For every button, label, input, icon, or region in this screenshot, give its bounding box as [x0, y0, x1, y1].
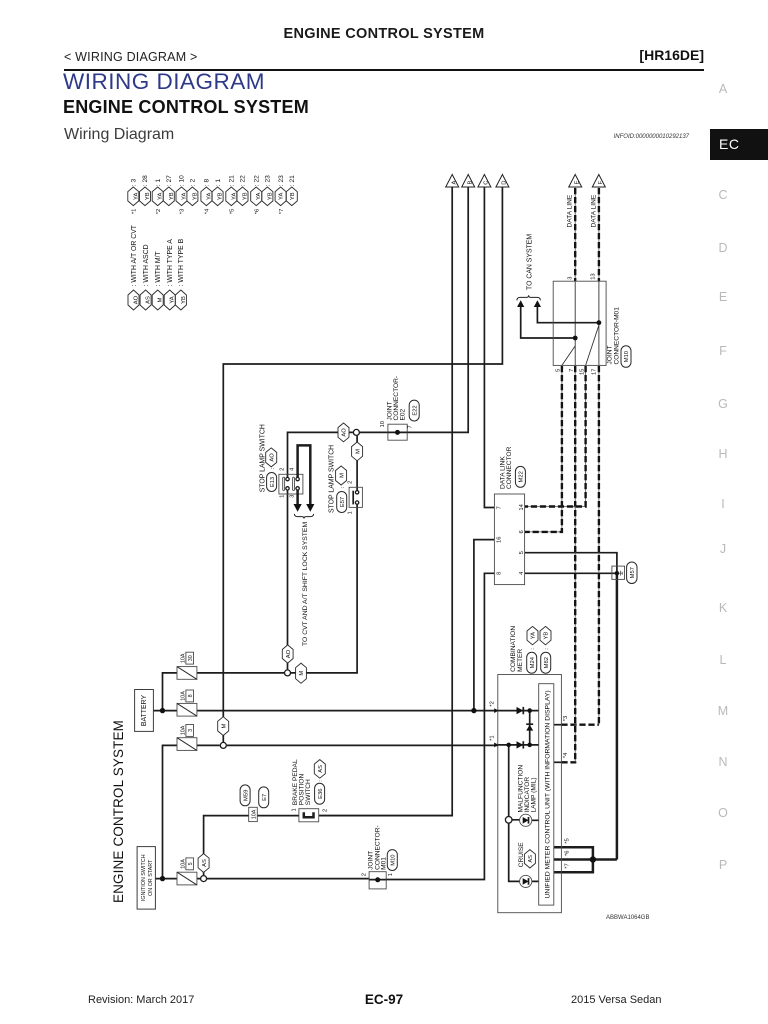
wire meter *4 row: [554, 761, 562, 763]
svg-text:TO CAN SYSTEM: TO CAN SYSTEM: [527, 234, 534, 290]
svg-text:E: E: [574, 181, 580, 185]
wire data link pin8 down-left to joint connector M10 pin1: [386, 573, 494, 879]
wire ignition feed rail to fuse3: [163, 745, 178, 878]
svg-text:AO: AO: [269, 453, 275, 462]
joint connector M01 internal bus 13-17: [586, 281, 599, 365]
svg-text:*2: *2: [490, 701, 496, 706]
wire B vertical from triangle B to joint connector E22: [407, 187, 468, 432]
svg-text:*3: *3: [180, 209, 186, 214]
svg-text:YA: YA: [256, 193, 262, 200]
svg-text:YB: YB: [243, 192, 249, 200]
svg-text:8: 8: [496, 572, 502, 575]
svg-text:10A: 10A: [180, 691, 186, 701]
svg-text:: 1: : 1: [155, 179, 162, 187]
svg-text:17: 17: [592, 369, 598, 375]
svg-text:: 27: : 27: [166, 175, 173, 186]
svg-text:ON OR START: ON OR START: [148, 859, 154, 896]
option tag *5 YA:21 YB:22: [226, 175, 249, 214]
splice circle on E22 wire: [353, 429, 359, 435]
svg-text:: 23: : 23: [265, 175, 272, 186]
svg-text:2: 2: [362, 873, 368, 876]
diode D1 on *2 row: [517, 707, 524, 714]
svg-text:AS: AS: [146, 296, 152, 304]
svg-text:E36: E36: [318, 789, 324, 799]
svg-text::: :: [530, 648, 536, 650]
svg-text:5: 5: [555, 369, 561, 372]
wire fuse8 feed to combination meter *2: [197, 710, 498, 712]
svg-text::: :: [544, 648, 550, 650]
wire ignition switch row to joint connector M10 pin2: [155, 878, 369, 880]
code tag AO on E13 pin1 wire: [282, 645, 293, 663]
svg-text:M10: M10: [391, 854, 397, 865]
wire battery feed: [153, 673, 177, 711]
svg-text:YA: YA: [206, 193, 212, 200]
svg-text:DATA LINE: DATA LINE: [566, 194, 573, 227]
option tag *4 YA:8 YB:1: [201, 179, 224, 215]
option tag *3 YA:10 YB:2: [176, 175, 198, 214]
svg-text:7: 7: [408, 425, 414, 428]
legend code YB WITH TYPE B: [175, 238, 187, 310]
svg-text:*5: *5: [230, 209, 236, 214]
svg-text:M24: M24: [530, 656, 536, 668]
wire brake pedal branch: [204, 816, 299, 876]
svg-text:M: M: [299, 671, 305, 676]
joint connector M10 lower: [362, 825, 398, 889]
svg-text:10A: 10A: [180, 725, 186, 735]
wire to CAN system right arrow: [537, 306, 599, 323]
CRUISE indicator lamp: [518, 842, 536, 888]
svg-text:M10: M10: [624, 351, 630, 362]
wire A vertical from triangle A to brake switch row: [319, 187, 453, 816]
dashed wire M01 pin17 to meter *3: [598, 365, 600, 724]
wire diode-OR link: [529, 711, 531, 745]
junction dot MIL branch: [506, 743, 511, 748]
svg-text:M: M: [221, 724, 227, 729]
svg-text:10A: 10A: [180, 653, 186, 663]
stop lamp switch E13: [259, 424, 303, 498]
wire D vertical from triangle D down-left to meter *1 splice: [223, 187, 502, 742]
arrowhead CAN left: [517, 300, 524, 307]
svg-text:YB: YB: [218, 192, 224, 200]
junction dot M01 bus 3: [573, 336, 578, 341]
svg-text:YB: YB: [290, 192, 296, 200]
node F triangle: [592, 175, 605, 188]
svg-text:7: 7: [496, 506, 502, 509]
svg-text:3: 3: [567, 277, 573, 280]
svg-text:ENGINE CONTROL SYSTEM: ENGINE CONTROL SYSTEM: [111, 720, 126, 903]
svg-text:: WITH TYPE B: : WITH TYPE B: [178, 238, 185, 286]
dashed data line E: [574, 187, 576, 281]
svg-text:*6: *6: [254, 209, 260, 214]
dashed wire meter *4 tail: [561, 761, 576, 763]
to CVT arrows from E13 pins 3 and 4: [294, 445, 315, 646]
brake fuse 10A with M59 E7: [240, 785, 269, 822]
combination meter box: [498, 626, 562, 913]
wire meter *1 internal diode row: [498, 744, 539, 746]
svg-text:*2: *2: [156, 209, 162, 214]
svg-text:M82: M82: [544, 657, 550, 668]
wire meter *5 *6 *7 ground junction: [554, 847, 617, 872]
svg-text:*7: *7: [279, 209, 285, 214]
option tag *7 YA:23 YB:21: [275, 175, 297, 214]
dashed wire M01 pin7 to meter *4: [574, 365, 576, 762]
svg-text:YA: YA: [133, 193, 139, 200]
svg-text:: 22: : 22: [253, 175, 260, 186]
joint connector M01 upper: [553, 273, 631, 375]
wire brake switch to wire A: [319, 815, 453, 817]
dashed data line F: [598, 187, 600, 281]
junction dot battery row: [160, 708, 165, 713]
svg-text:10: 10: [380, 421, 386, 427]
svg-text:LAMP (MIL): LAMP (MIL): [530, 777, 537, 812]
legend code AO WITH A/T OR CVT: [128, 224, 140, 310]
brake pedal position switch E36: [291, 759, 328, 822]
option tag *2 YA:1 YB:27: [152, 175, 175, 214]
meter entry arrow *1: [494, 743, 498, 748]
svg-text:YB: YB: [145, 192, 151, 200]
svg-text:*4: *4: [205, 208, 211, 214]
svg-text:: WITH ASCD: : WITH ASCD: [143, 244, 150, 286]
svg-text:E02: E02: [399, 408, 406, 420]
junction dot meter ground: [590, 856, 596, 862]
svg-text:D: D: [502, 181, 508, 185]
junction dot diode row *2: [527, 708, 532, 713]
joint connector E22: [380, 376, 419, 440]
svg-text:E13: E13: [270, 477, 276, 487]
svg-text:M: M: [339, 473, 345, 478]
wire meter *3 row: [554, 724, 562, 726]
node A triangle: [446, 175, 459, 188]
svg-text:E22: E22: [412, 405, 418, 415]
diode D3 vertical: [526, 724, 533, 730]
svg-text:: 1: : 1: [215, 179, 222, 187]
svg-text:M01: M01: [381, 857, 388, 870]
svg-text:: WITH TYPE A: : WITH TYPE A: [167, 239, 174, 287]
svg-text:IGNITION SWITCH: IGNITION SWITCH: [141, 854, 147, 901]
splice circle on ignition wire: [201, 876, 207, 882]
svg-text:M59: M59: [243, 790, 249, 801]
svg-text:M57: M57: [630, 567, 636, 578]
code tag AO on E13 pin2 wire: [338, 423, 349, 442]
svg-text:AS: AS: [528, 855, 534, 863]
code tag M on wire D: [218, 717, 229, 736]
svg-text:B: B: [467, 181, 473, 185]
svg-text:1: 1: [291, 808, 297, 811]
svg-text:4: 4: [289, 467, 295, 471]
svg-text:: 3: : 3: [131, 179, 138, 187]
wire fuse30 feed to splice to E57 pin1: [197, 504, 357, 673]
svg-text:BATTERY: BATTERY: [141, 695, 148, 727]
svg-text:YB: YB: [181, 296, 187, 304]
svg-text:CONNECTOR: CONNECTOR: [506, 446, 513, 489]
unified meter control unit box: [539, 684, 554, 905]
junction dot fuse8 pin16: [471, 708, 476, 713]
svg-text:1: 1: [279, 495, 285, 498]
wire data link pin4 to ground point M57: [525, 572, 617, 574]
node E triangle: [569, 175, 582, 188]
svg-text:YA: YA: [231, 193, 237, 200]
svg-text:YB: YB: [169, 192, 175, 200]
svg-text:YA: YA: [279, 193, 285, 200]
dashed wire meter *3 tail: [561, 724, 599, 726]
svg-text:STOP LAMP SWITCH: STOP LAMP SWITCH: [328, 445, 335, 513]
svg-text:DATA LINE: DATA LINE: [590, 194, 597, 227]
svg-text:M: M: [355, 449, 361, 454]
svg-text:: WITH M/T: : WITH M/T: [155, 250, 162, 286]
data link connector M22: [494, 446, 525, 584]
svg-text::: :: [318, 780, 324, 782]
svg-text::: :: [270, 467, 276, 469]
svg-text:: WITH A/T OR CVT: : WITH A/T OR CVT: [131, 224, 138, 286]
svg-text:: 21: : 21: [229, 175, 236, 186]
svg-text:F: F: [598, 180, 604, 184]
svg-text:16: 16: [497, 536, 503, 542]
svg-text:3: 3: [289, 495, 295, 498]
splice circle on fuse30 wire: [285, 670, 291, 676]
code tag M on fuse30 wire: [296, 663, 307, 683]
MIL indicator lamp: [517, 765, 537, 827]
fuse 10A 30: [177, 652, 197, 679]
junction dot diode row *1: [527, 743, 532, 748]
svg-text:2: 2: [347, 481, 353, 484]
svg-text::: :: [340, 486, 346, 488]
svg-text:: 23: : 23: [278, 175, 285, 186]
svg-text:7: 7: [569, 369, 575, 372]
svg-text:AS: AS: [202, 859, 208, 867]
joint connector M01 internal bus 3-7: [562, 281, 575, 365]
svg-text:: 21: : 21: [289, 175, 296, 186]
legend code AS WITH ASCD: [140, 244, 152, 310]
svg-text:SWITCH: SWITCH: [305, 779, 312, 805]
svg-text:: 28: : 28: [142, 175, 149, 186]
svg-text:M: M: [158, 297, 164, 302]
wire fuse3 feed through splice to combination meter *1: [197, 744, 498, 746]
option tag *6 YA:22 YB:23: [251, 175, 274, 214]
junction dot M01 bus 13: [597, 320, 602, 325]
node B triangle: [462, 175, 475, 188]
dashed wire M01 pin15 to data link pin14: [525, 365, 586, 506]
svg-text:6: 6: [519, 530, 525, 533]
svg-text:TO CVT AND A/T SHIFT LOCK SYST: TO CVT AND A/T SHIFT LOCK SYSTEM: [302, 522, 309, 646]
svg-text:C: C: [484, 181, 490, 185]
diode D2 on *1 row: [517, 741, 524, 748]
wire C vertical from triangle C to data link connector pin 7: [484, 187, 494, 508]
svg-text:AS: AS: [318, 765, 324, 773]
wire meter *2 internal diode row: [498, 710, 539, 712]
ground connector M57: [612, 562, 637, 584]
svg-text:AO: AO: [342, 428, 348, 437]
svg-text:*7: *7: [564, 863, 570, 868]
svg-text:*3: *3: [563, 716, 569, 721]
dashed wire M01 pin5 to data link pin6: [525, 365, 562, 532]
svg-text:: 22: : 22: [240, 175, 247, 186]
svg-text:AO: AO: [134, 295, 140, 304]
svg-text:2: 2: [279, 468, 285, 471]
svg-text:YA: YA: [181, 193, 187, 200]
svg-text:*1: *1: [490, 735, 496, 740]
svg-text:3: 3: [188, 729, 194, 732]
wire M57 down to meter ground junction: [616, 573, 619, 859]
stop lamp switch E57: [328, 445, 362, 515]
wire to CAN system left arrow: [521, 306, 576, 338]
node D triangle: [496, 175, 509, 188]
svg-text:*6: *6: [564, 851, 570, 856]
svg-text:UNIFIED METER CONTROL UNIT (WI: UNIFIED METER CONTROL UNIT (WITH INFORMA…: [544, 690, 551, 898]
svg-text:14: 14: [519, 503, 525, 510]
meter entry arrow *2: [494, 708, 498, 713]
wire data link pin16 down to *2 junction: [474, 540, 495, 711]
svg-text:YB: YB: [544, 632, 550, 640]
svg-text:13: 13: [590, 273, 596, 279]
svg-text:E7: E7: [262, 794, 268, 801]
option tag *1 YA:3 YB:28: [128, 175, 151, 214]
svg-text:10A: 10A: [180, 859, 186, 869]
svg-text:E57: E57: [340, 497, 346, 507]
junction dot ignition row: [160, 876, 165, 881]
splice circle on fuse3 wire: [220, 742, 226, 748]
wire E57 pin2 up to splice: [356, 436, 358, 491]
svg-text:2: 2: [322, 809, 328, 812]
svg-text:YB: YB: [267, 192, 273, 200]
svg-text:*1: *1: [132, 209, 138, 214]
svg-text:*4: *4: [563, 752, 569, 758]
svg-text:: 10: : 10: [179, 175, 186, 186]
splice circle MIL row: [505, 817, 512, 824]
svg-text:8: 8: [188, 694, 194, 697]
svg-text:JOINT: JOINT: [607, 345, 614, 364]
legend code M WITH M/T: [152, 250, 164, 310]
svg-text:: 8: : 8: [204, 179, 211, 187]
wire E13 pin1 down to splice on fuse30 feed: [287, 490, 289, 669]
svg-text:A: A: [451, 181, 457, 185]
battery: [135, 690, 154, 732]
svg-text:10A: 10A: [251, 809, 257, 819]
code tag AS on brake branch: [198, 854, 209, 873]
svg-text:YA: YA: [170, 296, 176, 303]
svg-text:1: 1: [388, 873, 394, 876]
wire MIL lamp branch: [509, 745, 539, 882]
svg-text:METER: METER: [517, 649, 524, 672]
svg-text:YB: YB: [192, 192, 198, 200]
svg-text:AO: AO: [286, 649, 292, 658]
node C triangle: [478, 175, 491, 188]
fuse 10A 5: [177, 858, 197, 885]
wire data link pin5 to ground point M57: [525, 553, 617, 574]
svg-text:YA: YA: [531, 632, 537, 639]
svg-text:30: 30: [188, 655, 194, 661]
fuse 10A 3: [177, 725, 197, 751]
svg-text:1: 1: [347, 511, 353, 514]
code tag M on E57 pin2 wire: [352, 442, 363, 461]
wire E13 pin2 to splice and joint connector E22 pin 10: [288, 432, 388, 477]
svg-text:5: 5: [188, 862, 194, 865]
ignition switch box: [137, 847, 155, 910]
svg-text:ABBWA1064GB: ABBWA1064GB: [606, 915, 649, 921]
svg-text:5: 5: [519, 551, 525, 554]
svg-text:CONNECTOR-M01: CONNECTOR-M01: [614, 307, 621, 365]
arrowhead CAN right: [534, 300, 541, 307]
svg-text:YA: YA: [158, 193, 164, 200]
brace over CAN arrows: [517, 295, 541, 300]
svg-text:*5: *5: [564, 838, 570, 843]
fuse 10A 8: [177, 690, 197, 716]
legend code YA WITH TYPE A: [164, 239, 176, 310]
svg-text:15: 15: [579, 369, 585, 375]
svg-text:: 2: : 2: [190, 179, 197, 187]
svg-text:M22: M22: [519, 471, 525, 482]
